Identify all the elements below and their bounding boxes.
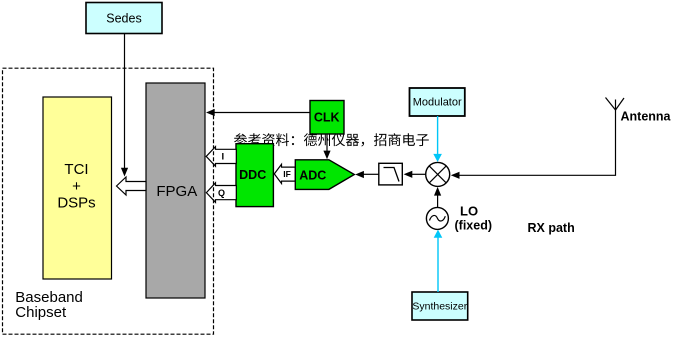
label LO (fixed) bbox=[455, 204, 493, 233]
svg-text:FPGA: FPGA bbox=[156, 183, 197, 200]
block CLK bbox=[310, 101, 344, 135]
svg-text:Q: Q bbox=[218, 188, 225, 198]
label Baseband Chipset bbox=[15, 289, 83, 321]
svg-text:Sedes: Sedes bbox=[106, 12, 141, 26]
svg-text:CLK: CLK bbox=[314, 110, 340, 124]
svg-text:TCI: TCI bbox=[64, 161, 88, 178]
block arrow I DDC to FPGA bbox=[206, 147, 236, 167]
wire antenna to mixer bbox=[451, 110, 616, 179]
wire Modulator to mixer (cyan) bbox=[433, 116, 442, 162]
note reference text (Chinese) bbox=[234, 133, 429, 146]
svg-text:(fixed): (fixed) bbox=[455, 219, 493, 233]
svg-text:I: I bbox=[221, 151, 224, 162]
block Modulator bbox=[410, 88, 465, 116]
block arrow FPGA to TCI bbox=[117, 177, 147, 195]
svg-text:IF: IF bbox=[283, 169, 291, 179]
svg-text:Synthesizer: Synthesizer bbox=[412, 301, 467, 313]
block Synthesizer bbox=[412, 292, 468, 320]
wire Synthesizer to LO (cyan) bbox=[434, 230, 443, 292]
svg-text:Chipset: Chipset bbox=[15, 304, 67, 321]
block FPGA bbox=[146, 83, 205, 298]
oscillator LO bbox=[426, 207, 448, 229]
antenna bbox=[606, 98, 625, 111]
wire CLK to FPGA bbox=[206, 109, 310, 116]
svg-text:ADC: ADC bbox=[299, 169, 326, 183]
wire LO to mixer bbox=[434, 187, 441, 208]
block TCI + DSPs bbox=[43, 97, 112, 279]
svg-text:DDC: DDC bbox=[239, 168, 266, 182]
block arrow Q DDC to FPGA bbox=[206, 183, 236, 203]
block arrow IF ADC to DDC bbox=[274, 164, 295, 183]
svg-text:DSPs: DSPs bbox=[57, 195, 95, 212]
block filter bbox=[379, 163, 403, 185]
svg-text:+: + bbox=[72, 178, 81, 195]
wire CLK to ADC bbox=[323, 134, 330, 159]
block Sedes bbox=[86, 3, 162, 34]
svg-text:Modulator: Modulator bbox=[413, 97, 462, 109]
svg-text:RX path: RX path bbox=[528, 221, 575, 235]
svg-text:Antenna: Antenna bbox=[621, 110, 672, 124]
wire filter to ADC bbox=[355, 171, 379, 178]
wire Sedes to FPGA/TCI arrow bbox=[121, 34, 128, 177]
dashed boundary Baseband Chipset bbox=[3, 68, 214, 334]
block DDC bbox=[236, 144, 273, 207]
block ADC bbox=[295, 160, 354, 190]
wire mixer to filter bbox=[404, 171, 426, 178]
svg-text:LO: LO bbox=[460, 204, 478, 219]
mixer bbox=[426, 162, 450, 186]
